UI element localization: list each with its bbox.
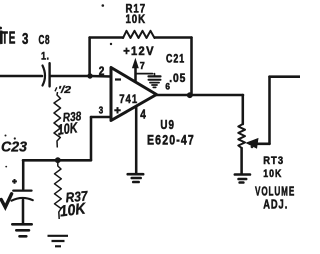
capacitor C21 plates	[149, 75, 161, 77]
potentiometer RT3 body	[238, 124, 245, 148]
ground under RT3	[235, 173, 250, 176]
resistor R17	[123, 31, 155, 38]
svg-text:741: 741	[119, 93, 138, 106]
svg-text:C21: C21	[166, 53, 185, 65]
svg-text:2: 2	[99, 66, 105, 79]
capacitor C23 lead	[22, 160, 25, 189]
wire pin3 vertical	[90, 117, 93, 160]
op-amp pin 4 stem	[135, 106, 138, 173]
capacitor C23 curved plate	[12, 198, 33, 201]
RT3 wiper arrowhead	[245, 138, 258, 149]
svg-text:'/2: '/2	[58, 85, 72, 96]
capacitor C23 top plate	[13, 189, 31, 191]
svg-text:10K: 10K	[57, 120, 80, 138]
capacitor C21 lead	[154, 74, 156, 76]
wire C8 to node A	[51, 75, 90, 78]
svg-text:C23: C23	[1, 140, 27, 156]
svg-text:6: 6	[165, 82, 170, 92]
resistor R38 lead tick	[55, 87, 57, 91]
wire to right edge	[270, 75, 301, 78]
resistor R38 body (hand drawn)	[54, 92, 61, 148]
wire RT3 to ground	[240, 148, 243, 174]
node B junction dot (R38/R37)	[55, 157, 61, 163]
node A junction dot	[87, 73, 92, 78]
svg-text:4: 4	[140, 108, 146, 121]
svg-text:U9: U9	[160, 119, 175, 132]
wire drop to RT3	[242, 95, 245, 124]
svg-text:C8: C8	[39, 33, 51, 47]
ground under R37	[48, 236, 69, 247]
op-amp U1 triangle	[111, 68, 157, 121]
svg-text:7: 7	[140, 61, 146, 72]
resistor R37 body (hand drawn)	[55, 163, 62, 219]
svg-text:RT3: RT3	[263, 155, 284, 167]
scan speck dots	[5, 4, 254, 167]
check mark	[1, 194, 11, 207]
wire op-amp output	[157, 94, 244, 97]
svg-text:10K: 10K	[263, 168, 282, 180]
wire feedback left vertical	[88, 38, 91, 77]
op-amp plus sign	[114, 107, 120, 113]
wire op-amp pin 3 stub	[91, 116, 111, 119]
wire feedback right vertical	[190, 38, 193, 96]
svg-text:1.: 1.	[41, 51, 49, 63]
svg-text:10K: 10K	[59, 200, 88, 220]
op-amp minus sign	[115, 78, 121, 80]
svg-text:VOLUME: VOLUME	[255, 185, 295, 199]
op-amp pin 7 stem	[134, 66, 137, 82]
note text partial NOTE 3	[0, 32, 1, 44]
wire junction horizontal	[23, 159, 91, 162]
wire feedback top right segment	[155, 36, 192, 39]
svg-text:.05: .05	[169, 73, 186, 86]
svg-text:+12V: +12V	[123, 46, 155, 58]
wire RT3 wiper	[256, 143, 270, 146]
svg-text:3: 3	[22, 29, 29, 47]
+12V arrowhead	[132, 58, 139, 68]
svg-text:ADJ.: ADJ.	[263, 198, 288, 212]
ground under C21	[150, 82, 159, 84]
capacitor C8	[43, 66, 46, 86]
capacitor C23 bottom lead	[22, 200, 25, 224]
wire input left to C8	[0, 75, 42, 78]
svg-text:E620-47: E620-47	[147, 132, 195, 148]
ground under C23	[12, 223, 31, 226]
C23 plus polarity mark	[12, 179, 17, 184]
wire node A to op-amp pin 2	[90, 75, 111, 78]
svg-text:TE: TE	[2, 29, 16, 49]
ground under pin 4	[128, 173, 144, 176]
wire pin7 to C21	[136, 73, 153, 75]
svg-text:10K: 10K	[126, 13, 147, 26]
svg-text:3: 3	[99, 106, 104, 117]
wire feedback top left segment	[90, 36, 123, 39]
output node junction dot	[187, 92, 193, 98]
